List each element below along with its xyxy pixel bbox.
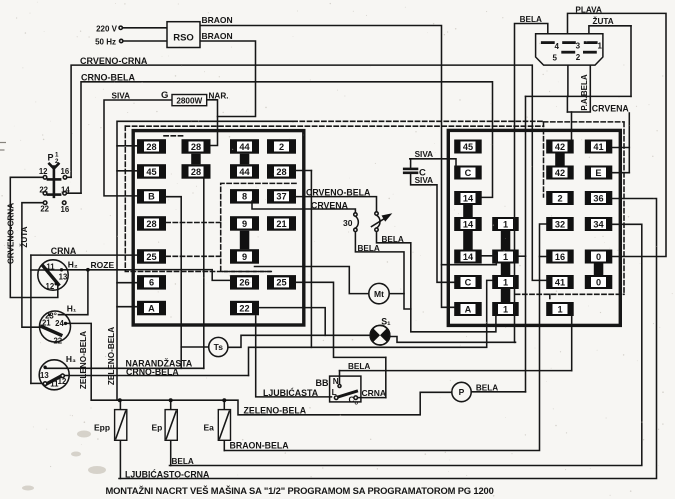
wire dashed right box bottom (dashed) bbox=[516, 293, 625, 295]
wire BB N line to 1cC bbox=[340, 370, 572, 372]
wire Ep bottom bbox=[170, 440, 172, 465]
switch H1 bbox=[40, 311, 71, 342]
terminal R-cBr5 bbox=[492, 250, 519, 264]
svg-text:4: 4 bbox=[555, 42, 560, 51]
svg-text:SIVA: SIVA bbox=[415, 150, 434, 159]
terminal L-c3r7 bbox=[230, 301, 259, 316]
terminal R-cAr7 bbox=[454, 302, 482, 316]
svg-text:41: 41 bbox=[593, 142, 603, 152]
wire 34 to BELA line bbox=[170, 224, 642, 465]
svg-text:44: 44 bbox=[239, 167, 250, 177]
svg-text:37: 37 bbox=[276, 192, 286, 202]
terminal R-cCr2 bbox=[546, 166, 574, 180]
svg-text:1: 1 bbox=[503, 277, 508, 287]
svg-text:28: 28 bbox=[191, 142, 201, 152]
svg-text:16: 16 bbox=[555, 252, 565, 262]
svg-text:50 Hz: 50 Hz bbox=[95, 38, 116, 47]
terminal R-cCr7 bbox=[546, 302, 574, 316]
wire dashed 28c1r4 right (dashed) bbox=[166, 222, 221, 224]
wire BB N lead bbox=[339, 371, 341, 386]
svg-text:CRVENA: CRVENA bbox=[311, 200, 349, 210]
terminal R-cDr5 bbox=[585, 250, 613, 264]
svg-text:1: 1 bbox=[557, 304, 562, 314]
svg-text:14: 14 bbox=[463, 219, 474, 229]
svg-text:34: 34 bbox=[593, 219, 604, 229]
svg-text:Ea: Ea bbox=[204, 423, 215, 433]
wire BB vertical bbox=[385, 357, 387, 397]
wire 32-16 riser to BRAON-BELA bbox=[224, 224, 546, 451]
svg-text:P: P bbox=[459, 387, 465, 397]
svg-text:ZELENO-BELA: ZELENO-BELA bbox=[107, 327, 116, 385]
svg-text:H₂: H₂ bbox=[68, 259, 78, 269]
wire Ep top bbox=[170, 400, 172, 409]
terminal L-c2r1 bbox=[182, 139, 211, 154]
wire P2 16top to CRVENO-CRNA bbox=[66, 176, 71, 178]
svg-text:28: 28 bbox=[146, 142, 156, 152]
wire BRAON top RSO to A bbox=[200, 26, 454, 308]
svg-text:o: o bbox=[355, 401, 359, 407]
terminal circle 50Hz bbox=[120, 39, 123, 42]
door lock BB bbox=[330, 376, 361, 402]
pressure switch P2 bbox=[48, 164, 60, 197]
wire stub A bbox=[117, 306, 138, 308]
svg-text:0: 0 bbox=[596, 252, 601, 262]
wire E stub right bbox=[612, 172, 629, 174]
wire ZUTA down right bbox=[630, 26, 632, 97]
wire 16 stub bbox=[540, 256, 547, 258]
svg-text:Ep: Ep bbox=[152, 423, 163, 433]
svg-text:CRVENO-CRNA: CRVENO-CRNA bbox=[80, 56, 148, 66]
terminal R-cCr6 bbox=[546, 275, 574, 289]
wire dashed right box (dashed) bbox=[543, 122, 545, 197]
svg-text:L: L bbox=[332, 388, 337, 397]
link L-c3r1-r2 bbox=[240, 154, 250, 165]
svg-text:24: 24 bbox=[55, 319, 64, 328]
wire dashed top right half (dashed) bbox=[293, 120, 544, 122]
svg-text:S₁: S₁ bbox=[381, 317, 391, 327]
terminal R-cBr6 bbox=[492, 275, 519, 289]
terminal L-c3r6 bbox=[230, 275, 259, 290]
svg-text:CRNA: CRNA bbox=[51, 246, 77, 256]
thermostat arrow contact bbox=[377, 215, 381, 228]
svg-text:13: 13 bbox=[59, 272, 68, 281]
wire BELA pin4 to St line bbox=[515, 24, 548, 343]
wire dashed 25c1 right (dashed) bbox=[166, 255, 221, 257]
svg-text:Ts: Ts bbox=[214, 342, 224, 352]
terminal L-c1r7 bbox=[137, 301, 166, 316]
svg-text:220 V: 220 V bbox=[96, 25, 118, 34]
svg-text:H₃: H₃ bbox=[66, 354, 76, 364]
terminal L-c1r5 bbox=[137, 249, 166, 264]
svg-text:16: 16 bbox=[61, 167, 70, 176]
svg-text:H₁: H₁ bbox=[67, 303, 77, 313]
wire CRNO-BELA continuation to 1r6 bbox=[249, 280, 493, 375]
svg-text:CRNO-BELA: CRNO-BELA bbox=[81, 73, 135, 83]
wire CRNA bus vertical bbox=[30, 255, 32, 383]
terminal L-c1r3 bbox=[137, 189, 166, 204]
svg-text:CRVENO-BELA: CRVENO-BELA bbox=[306, 187, 371, 197]
svg-text:NAR.: NAR. bbox=[209, 92, 229, 101]
svg-text:ŽUTA: ŽUTA bbox=[18, 226, 29, 247]
terminal circle 220V bbox=[119, 26, 122, 29]
svg-text:Epp: Epp bbox=[94, 423, 110, 433]
svg-text:6: 6 bbox=[149, 278, 154, 288]
svg-text:22: 22 bbox=[40, 205, 49, 214]
svg-text:C: C bbox=[465, 277, 472, 287]
svg-text:1: 1 bbox=[503, 219, 508, 229]
wire ZUTA top bbox=[589, 26, 631, 42]
wire arrow contact top CRVENO-BELA bbox=[296, 197, 377, 212]
svg-text:CRNO-BELA: CRNO-BELA bbox=[126, 367, 179, 377]
wire dashed right box right side (dashed) bbox=[623, 122, 625, 294]
wire stub 6 bbox=[117, 282, 138, 284]
terminal R-cAr5 bbox=[454, 250, 482, 264]
wire ZELENO-BELA bottom line bbox=[91, 392, 452, 415]
wire CRVENO-CRNA bus P2-12 to H2-12 bbox=[10, 177, 58, 297]
wire 36 to LJUB-CRNA line bbox=[119, 199, 657, 479]
svg-text:Mt: Mt bbox=[374, 289, 384, 299]
wire pin2 lead PABELA bbox=[567, 53, 590, 112]
svg-text:16: 16 bbox=[61, 205, 70, 214]
svg-text:14: 14 bbox=[61, 185, 70, 194]
svg-text:12: 12 bbox=[39, 167, 48, 176]
wire dashed right box top (dashed) bbox=[544, 121, 625, 123]
contact 30 bbox=[355, 216, 358, 228]
svg-text:14: 14 bbox=[463, 252, 474, 262]
wire B riser bbox=[166, 197, 181, 369]
svg-text:45: 45 bbox=[463, 142, 473, 152]
wire arrow contact bottom BELA bbox=[377, 232, 496, 332]
switch H2 bbox=[38, 260, 68, 290]
terminal L-c4r2 bbox=[267, 164, 296, 179]
svg-text:A: A bbox=[148, 303, 155, 313]
link R-cBr5-r6 bbox=[501, 264, 511, 276]
svg-text:11: 11 bbox=[46, 262, 55, 271]
terminal R-cBr7 bbox=[492, 302, 519, 316]
wire 14r5 to BRAON junction bbox=[442, 256, 497, 265]
wire NARANDZASTA wire bbox=[45, 367, 204, 369]
wire 28c2r2 riser bbox=[203, 179, 205, 368]
svg-text:9: 9 bbox=[242, 252, 247, 262]
svg-text:44: 44 bbox=[239, 142, 250, 152]
svg-text:22: 22 bbox=[239, 303, 249, 313]
link R-cCr1-r2 bbox=[555, 154, 565, 166]
right terminal block outline bbox=[448, 130, 620, 325]
link R-cBr4-r5 bbox=[501, 231, 511, 250]
svg-text:RSO: RSO bbox=[173, 33, 194, 44]
terminal R-cDr6 bbox=[585, 275, 613, 289]
svg-text:ZELENO-BELA: ZELENO-BELA bbox=[244, 405, 307, 415]
terminal R-cDr2 bbox=[585, 166, 613, 180]
terminal R-cCr1 bbox=[546, 140, 574, 154]
svg-text:BELA: BELA bbox=[348, 362, 370, 371]
svg-text:LJUBIĆASTA: LJUBIĆASTA bbox=[263, 387, 319, 398]
terminal R-cDr1 bbox=[585, 140, 613, 154]
svg-text:2800W: 2800W bbox=[176, 96, 202, 105]
svg-text:BELA: BELA bbox=[476, 384, 498, 393]
svg-text:9: 9 bbox=[242, 219, 247, 229]
wire 25c4 to BB bbox=[296, 282, 386, 357]
svg-text:CRVENO-CRNA: CRVENO-CRNA bbox=[7, 203, 16, 264]
svg-text:21: 21 bbox=[276, 219, 286, 229]
terminal R-cAr2 bbox=[454, 166, 482, 180]
terminal L-c4r6 bbox=[267, 275, 296, 290]
wire pin5 lead bbox=[567, 53, 569, 96]
wire pin5 top h bbox=[526, 95, 632, 97]
wire NAR heater to 28c2r1 bbox=[207, 100, 218, 146]
svg-text:22: 22 bbox=[39, 185, 48, 194]
terminal L-c1r6 bbox=[137, 275, 166, 290]
valve Ep bbox=[165, 410, 177, 441]
wire Ea bottom bbox=[223, 440, 225, 450]
terminal L-c4r1 bbox=[267, 139, 296, 154]
wire SIVA cap top bbox=[410, 159, 456, 166]
terminal L-c3r4 bbox=[230, 216, 259, 231]
capacitor C bbox=[404, 169, 417, 173]
wire CRNA to H2 bbox=[31, 269, 62, 271]
wire CRNA to H3-13 bbox=[31, 382, 44, 384]
suppressor RSO bbox=[167, 22, 200, 48]
svg-text:3: 3 bbox=[576, 41, 581, 50]
terminal R-cAr1 bbox=[454, 140, 482, 154]
terminal R-cAr6 bbox=[454, 275, 482, 289]
link R-cAr4-r5 bbox=[463, 231, 473, 250]
terminal R-cCr3 bbox=[546, 191, 574, 205]
svg-text:25: 25 bbox=[146, 252, 156, 262]
svg-text:21: 21 bbox=[42, 318, 51, 327]
svg-text:1: 1 bbox=[598, 41, 603, 50]
wire CRNO-BELA run to 14r3 bbox=[81, 82, 493, 198]
svg-text:28: 28 bbox=[191, 167, 201, 177]
svg-text:ŽUTA: ŽUTA bbox=[593, 15, 614, 26]
wire cap top lead bbox=[410, 159, 412, 168]
svg-text:5: 5 bbox=[553, 54, 558, 63]
P2 contact circles bbox=[43, 176, 67, 205]
svg-text:CRVENA: CRVENA bbox=[592, 103, 630, 113]
wire Mt stub bbox=[389, 293, 404, 295]
link R-cBr6-r7 bbox=[501, 289, 511, 302]
wire cap bottom lead to C r6 bbox=[411, 174, 455, 282]
terminal L-c1r2 bbox=[137, 164, 166, 179]
wire Mt left from 9r5 bbox=[255, 267, 369, 294]
svg-text:14: 14 bbox=[463, 193, 474, 203]
wire Ts right to St line bbox=[228, 335, 370, 347]
svg-text:2: 2 bbox=[279, 142, 284, 152]
wire dashed stub bottom (dashed) bbox=[549, 294, 551, 300]
wire CRVENA 41-E jumper bbox=[628, 113, 630, 173]
wire pin5 riser through block to P bbox=[525, 96, 527, 391]
svg-text:42: 42 bbox=[555, 168, 565, 178]
svg-text:BELA: BELA bbox=[172, 457, 194, 466]
wire SIVA heater to B bbox=[104, 100, 172, 196]
wire stub 28c1r1 bbox=[117, 145, 137, 147]
svg-text:SIVA: SIVA bbox=[415, 176, 434, 185]
svg-text:G: G bbox=[161, 90, 168, 101]
wire BRAON bottom RSO bbox=[200, 41, 256, 117]
svg-text:BELA: BELA bbox=[520, 15, 542, 24]
svg-text:BRAON: BRAON bbox=[202, 15, 233, 25]
svg-text:26: 26 bbox=[239, 278, 249, 288]
wire 8 to CRVENA contact30 bbox=[252, 201, 355, 213]
wire H1-24 to ZELENO-BELA1 bbox=[66, 323, 92, 400]
svg-text:E: E bbox=[595, 168, 601, 178]
terminal R-cBr4 bbox=[492, 217, 519, 231]
svg-text:A: A bbox=[465, 304, 472, 314]
wire dashed inner box left block (dashed) bbox=[221, 183, 296, 271]
valve Epp bbox=[115, 410, 127, 441]
heater G 2800W bbox=[172, 95, 207, 106]
wire Ea top bbox=[223, 400, 225, 409]
wire P right to riser bbox=[471, 391, 525, 393]
wire 41 stub right bbox=[612, 147, 629, 149]
svg-text:45: 45 bbox=[146, 167, 156, 177]
svg-text:PLAVA: PLAVA bbox=[575, 6, 602, 15]
wire riser to 42 top bbox=[571, 112, 573, 140]
terminal L-c3r1 bbox=[230, 139, 259, 154]
svg-text:0: 0 bbox=[596, 277, 601, 287]
svg-text:BRAON-BELA: BRAON-BELA bbox=[230, 441, 290, 451]
svg-text:N: N bbox=[333, 377, 339, 386]
svg-text:MONTAŽNI NACRT VEŠ MAŠINA SA ": MONTAŽNI NACRT VEŠ MAŠINA SA "1/2" PROGR… bbox=[106, 485, 494, 496]
terminal R-cCr5 bbox=[546, 250, 574, 264]
wire ROZE riser to H1 top bbox=[59, 270, 88, 315]
terminal L-c2r2 bbox=[182, 164, 211, 179]
wire 50Hz feed bbox=[123, 40, 168, 42]
svg-text:2: 2 bbox=[576, 53, 581, 62]
svg-text:BB: BB bbox=[316, 378, 329, 388]
svg-text:30: 30 bbox=[343, 218, 353, 228]
svg-text:ZELENO-BELA: ZELENO-BELA bbox=[79, 331, 88, 389]
svg-text:22: 22 bbox=[53, 337, 62, 346]
terminal L-c3r2 bbox=[230, 164, 259, 179]
terminal L-c1r4 bbox=[137, 216, 166, 231]
svg-text:28: 28 bbox=[276, 167, 286, 177]
svg-text:32: 32 bbox=[555, 219, 565, 229]
svg-text:B: B bbox=[148, 192, 155, 202]
svg-text:41: 41 bbox=[555, 277, 565, 287]
link R-cAr3-r4 bbox=[463, 205, 473, 217]
wire 28c4r2 riser to Ts line bbox=[310, 171, 312, 348]
wire BB C wire CRNA bbox=[357, 397, 386, 399]
wire 22 right joins St line bbox=[259, 308, 326, 336]
wire ROZE H2 to block bbox=[62, 269, 134, 271]
wire contact30 bottom BELA bbox=[355, 232, 410, 309]
terminal R-cAr3 bbox=[454, 191, 482, 205]
connector pins bbox=[542, 43, 596, 53]
terminal R-cDr4 bbox=[585, 217, 613, 231]
wire St right to 1r7 bbox=[390, 337, 516, 343]
wire CRNA wire to 25c1 bbox=[31, 254, 137, 256]
wire Epp bottom bbox=[119, 440, 121, 478]
svg-text:42: 42 bbox=[555, 142, 565, 152]
wire dashed left side of outer dashed box (dashed) bbox=[125, 126, 271, 271]
wire PLAVA run bbox=[568, 13, 667, 256]
signal lamp St bbox=[370, 325, 390, 345]
svg-text:12: 12 bbox=[58, 377, 67, 386]
motor Mt bbox=[369, 283, 389, 303]
switch H3 bbox=[39, 360, 69, 390]
wire Ts left bbox=[181, 346, 209, 348]
svg-text:25: 25 bbox=[276, 278, 286, 288]
wire 1r5 stub to P riser bbox=[519, 255, 526, 257]
thermostat Ts bbox=[209, 337, 228, 356]
terminal R-cCr4 bbox=[546, 217, 574, 231]
svg-text:13: 13 bbox=[40, 371, 49, 380]
svg-text:28: 28 bbox=[146, 219, 156, 229]
wire 28c4r2 to riser bbox=[296, 170, 311, 172]
wire 26 feed inside block bbox=[134, 270, 231, 281]
wire 22 riser to LJUBICASTA bbox=[256, 316, 332, 397]
svg-text:SIVA: SIVA bbox=[112, 92, 131, 101]
wire CRNO-BELA bottom wire bbox=[62, 375, 248, 377]
svg-text:36: 36 bbox=[593, 193, 603, 203]
BB switch blade bbox=[336, 391, 356, 397]
wire Epp top bbox=[119, 400, 121, 409]
wire riser ZELENO-BELA2 bbox=[117, 121, 293, 400]
terminal R-cAr4 bbox=[454, 217, 482, 231]
terminal R-cDr3 bbox=[585, 191, 613, 205]
valve Ea bbox=[218, 410, 230, 441]
link L-c3r4-r5 bbox=[240, 231, 250, 250]
svg-text:ROZE: ROZE bbox=[91, 260, 115, 270]
wire ZUTA bus P2-22 to H1 bbox=[22, 203, 44, 328]
wire 220V feed bbox=[122, 27, 167, 29]
svg-text:1: 1 bbox=[503, 252, 508, 262]
link R-cDr5-r6 bbox=[594, 264, 604, 276]
svg-text:1: 1 bbox=[503, 304, 508, 314]
wire dashed mini top block (dashed) bbox=[164, 135, 184, 137]
svg-text:P.A.BELA: P.A.BELA bbox=[580, 74, 589, 111]
terminal L-c3r5 bbox=[230, 249, 259, 264]
svg-text:CRNA: CRNA bbox=[362, 388, 387, 398]
terminal L-c3r3 bbox=[230, 189, 259, 204]
svg-text:BELA: BELA bbox=[382, 235, 404, 244]
wire ZUTA drop to 42 bbox=[566, 96, 568, 112]
svg-text:2: 2 bbox=[55, 158, 59, 165]
terminal L-c4r4 bbox=[267, 216, 296, 231]
junction dots bbox=[86, 268, 226, 402]
link L-c2r1-r2 bbox=[191, 154, 201, 165]
wire CRVENO-CRNA run to 41 bbox=[71, 65, 546, 280]
svg-text:2: 2 bbox=[557, 193, 562, 203]
wire dashed top main (dashed) bbox=[125, 125, 543, 127]
pump P bbox=[452, 382, 471, 401]
svg-text:BELA: BELA bbox=[358, 244, 380, 253]
svg-text:BRAON: BRAON bbox=[202, 31, 233, 41]
svg-text:P: P bbox=[48, 153, 54, 163]
svg-text:C: C bbox=[465, 168, 472, 178]
wire 1cC riser bbox=[571, 316, 573, 371]
terminal L-c1r1 bbox=[137, 139, 166, 154]
svg-text:8: 8 bbox=[242, 192, 247, 202]
left terminal block outline bbox=[133, 131, 304, 325]
svg-text:12: 12 bbox=[46, 282, 55, 291]
terminal L-c4r3 bbox=[267, 189, 296, 204]
wire P2 14 to CRNO-BELA bbox=[66, 192, 81, 194]
connector plug 5-pin bbox=[536, 34, 603, 65]
wire stub 45c1r2 bbox=[117, 170, 137, 172]
